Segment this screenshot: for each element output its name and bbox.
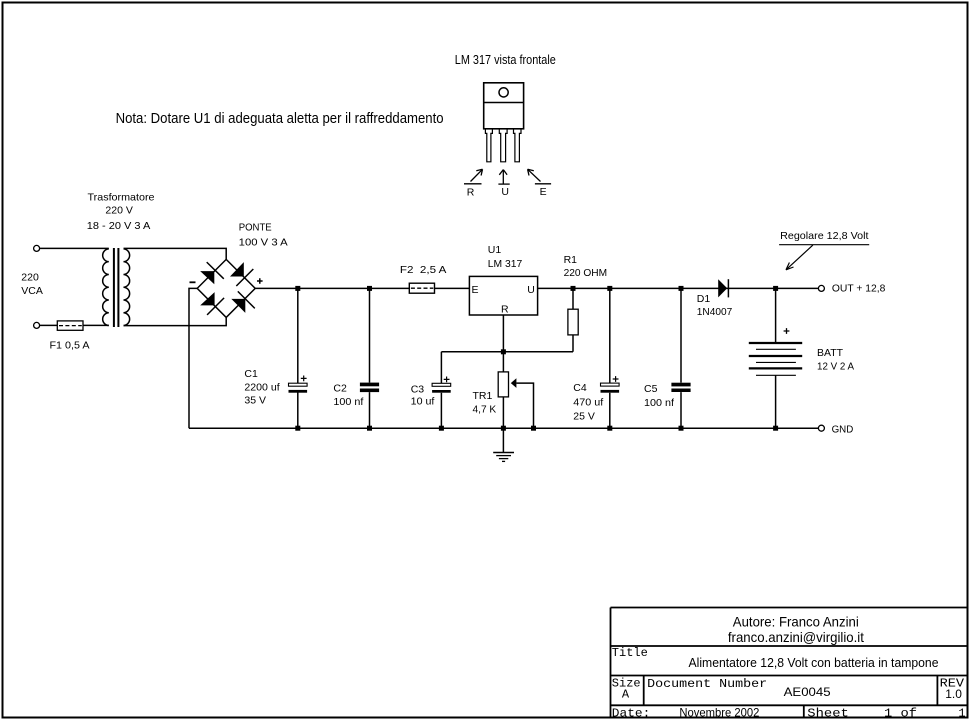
bridge rectifier PONTE diamond bbox=[197, 259, 255, 317]
battery BATT bbox=[749, 288, 802, 428]
wire R1 bottom / adjust node horizontal bbox=[441, 351, 573, 353]
bridge diode bottom-left bbox=[200, 292, 224, 315]
svg-text:U: U bbox=[501, 186, 509, 198]
junction rail C5 bbox=[679, 286, 684, 291]
svg-text:Alimentatore 12,8 Volt con bat: Alimentatore 12,8 Volt con batteria in t… bbox=[689, 656, 939, 670]
junction gnd wiper bbox=[531, 426, 536, 431]
svg-text:220 OHM: 220 OHM bbox=[564, 267, 608, 279]
wire secondary bottom to bridge bbox=[124, 318, 227, 326]
svg-text:C5: C5 bbox=[644, 383, 658, 395]
terminal GND bbox=[818, 425, 824, 431]
U1 LM317 package front view (TO-220) bbox=[484, 83, 524, 162]
wire fuse F1 to transformer primary bbox=[83, 324, 109, 326]
svg-text:R: R bbox=[467, 187, 475, 199]
op-amp/regulator U1 LM317 box bbox=[469, 276, 537, 315]
wire main +V rail (bridge to U1) bbox=[255, 287, 469, 289]
capacitor C1 plus sign bbox=[301, 376, 307, 382]
svg-text:R1: R1 bbox=[564, 254, 578, 266]
transformer T secondary winding bbox=[124, 249, 130, 326]
wire main +V rail (U1 to OUT) bbox=[538, 287, 819, 289]
svg-text:1N4007: 1N4007 bbox=[697, 306, 733, 318]
bridge diode top-right bbox=[230, 262, 253, 286]
svg-text:AE0045: AE0045 bbox=[784, 685, 831, 699]
svg-text:Novembre 2002: Novembre 2002 bbox=[679, 705, 759, 719]
svg-text:1 of: 1 of bbox=[884, 706, 917, 720]
battery plus sign bbox=[784, 328, 790, 334]
junction gnd battery bbox=[773, 426, 778, 431]
capacitor C3 leads bbox=[440, 352, 442, 428]
pin arrow E (TO-220 view) bbox=[528, 169, 552, 184]
capacitor C5 leads bbox=[680, 288, 682, 428]
transformer T core bbox=[114, 248, 119, 327]
svg-text:10 uf: 10 uf bbox=[411, 395, 435, 407]
svg-text:Document Number: Document Number bbox=[647, 677, 767, 691]
wire input top bbox=[40, 247, 109, 249]
svg-text:VCA: VCA bbox=[21, 285, 43, 297]
capacitor C2 leads bbox=[369, 288, 371, 428]
svg-text:OUT + 12,8: OUT + 12,8 bbox=[832, 283, 886, 295]
bridge minus sign bbox=[190, 281, 196, 283]
junction rail R1 bbox=[571, 286, 576, 291]
junction gnd C1 bbox=[295, 426, 300, 431]
transformer T primary winding bbox=[103, 249, 109, 326]
svg-text:LM 317: LM 317 bbox=[488, 258, 523, 270]
wire bridge minus down to ground rail bbox=[189, 288, 197, 428]
title block bbox=[611, 608, 969, 719]
capacitor C2 plates bbox=[360, 383, 379, 393]
svg-text:C4: C4 bbox=[573, 382, 587, 394]
terminal 220 VCA bottom bbox=[34, 322, 40, 328]
wire ground rail bbox=[189, 427, 818, 429]
svg-text:Trasformatore: Trasformatore bbox=[88, 191, 155, 203]
svg-text:Autore: Franco Anzini: Autore: Franco Anzini bbox=[733, 613, 859, 629]
diode D1 bbox=[718, 279, 728, 297]
svg-text:E: E bbox=[472, 284, 479, 296]
svg-text:C2: C2 bbox=[333, 383, 347, 395]
svg-text:1: 1 bbox=[958, 706, 965, 720]
pin arrow R (TO-220 view) bbox=[464, 169, 483, 184]
svg-text:220: 220 bbox=[21, 272, 39, 284]
svg-text:D1: D1 bbox=[697, 293, 711, 305]
svg-text:Title: Title bbox=[612, 646, 648, 660]
svg-text:C3: C3 bbox=[411, 383, 425, 395]
junction bridge+/C1 bbox=[295, 286, 300, 291]
capacitor C4 plus sign bbox=[613, 376, 619, 382]
bridge diode bottom-right bbox=[231, 291, 255, 313]
svg-text:Sheet: Sheet bbox=[807, 706, 849, 720]
svg-text:LM 317 vista frontale: LM 317 vista frontale bbox=[455, 52, 556, 67]
svg-text:F1 0,5 A: F1 0,5 A bbox=[50, 340, 90, 352]
svg-text:Date:: Date: bbox=[612, 706, 651, 720]
svg-text:GND: GND bbox=[832, 424, 854, 436]
junction R pin / adjust node bbox=[501, 349, 506, 354]
capacitor C1 leads bbox=[297, 288, 299, 428]
junction gnd C3 bbox=[439, 426, 444, 431]
svg-text:U: U bbox=[527, 284, 535, 296]
pin arrow U (TO-220 view) bbox=[498, 170, 509, 185]
svg-text:PONTE: PONTE bbox=[239, 221, 272, 233]
svg-text:470 uf: 470 uf bbox=[573, 397, 603, 409]
svg-text:25 V: 25 V bbox=[573, 411, 595, 423]
svg-text:U1: U1 bbox=[488, 244, 502, 256]
junction rail battery bbox=[773, 286, 778, 291]
svg-text:100 nf: 100 nf bbox=[644, 397, 674, 409]
junction gnd C4 bbox=[607, 426, 612, 431]
capacitor C3 plates bbox=[432, 383, 451, 392]
resistor R1 body bbox=[568, 309, 578, 335]
svg-text:2200 uf: 2200 uf bbox=[244, 382, 279, 394]
svg-text:BATT: BATT bbox=[817, 347, 844, 359]
svg-text:F2 2,5 A: F2 2,5 A bbox=[400, 264, 447, 276]
bridge plus sign bbox=[257, 278, 263, 284]
terminal OUT bbox=[818, 285, 824, 291]
svg-text:18 - 20 V 3 A: 18 - 20 V 3 A bbox=[87, 220, 151, 232]
fuse F2 bbox=[409, 283, 434, 293]
svg-text:C1: C1 bbox=[244, 368, 258, 380]
svg-text:4,7 K: 4,7 K bbox=[473, 403, 497, 415]
svg-text:100 nf: 100 nf bbox=[333, 396, 363, 408]
svg-text:franco.anzini@virgilio.it: franco.anzini@virgilio.it bbox=[728, 629, 864, 645]
svg-text:E: E bbox=[540, 186, 547, 198]
wire input bottom to fuse F1 bbox=[40, 324, 58, 326]
capacitor C1 plates bbox=[289, 383, 308, 392]
terminal 220 VCA top bbox=[34, 245, 40, 251]
bridge diode top-left bbox=[200, 262, 224, 284]
potentiometer TR1 bottom lead bbox=[502, 397, 504, 428]
junction gnd C5 bbox=[679, 426, 684, 431]
svg-text:R: R bbox=[501, 304, 509, 316]
svg-text:12 V 2 A: 12 V 2 A bbox=[817, 361, 854, 373]
junction rail C4 bbox=[607, 286, 612, 291]
annotation arrow Regolare 12,8 Volt bbox=[779, 245, 869, 270]
capacitor C4 leads bbox=[609, 288, 611, 428]
wire secondary top to bridge bbox=[124, 248, 227, 259]
junction gnd C2 bbox=[367, 426, 372, 431]
junction rail C2 bbox=[367, 286, 372, 291]
capacitor C5 plates bbox=[671, 383, 690, 392]
resistor R1 leads bbox=[572, 288, 574, 351]
svg-text:TR1: TR1 bbox=[473, 390, 493, 402]
svg-text:Nota: Dotare U1 di adeguata al: Nota: Dotare U1 di adeguata aletta per i… bbox=[116, 111, 444, 127]
svg-text:100 V 3 A: 100 V 3 A bbox=[239, 237, 288, 249]
ground symbol bbox=[493, 428, 514, 461]
junction gnd TR1 bbox=[501, 426, 506, 431]
wire U1 R pin down bbox=[502, 315, 504, 372]
potentiometer TR1 wiper arrow bbox=[511, 378, 534, 428]
svg-text:A: A bbox=[622, 688, 630, 702]
svg-text:220 V: 220 V bbox=[105, 204, 132, 216]
capacitor C3 plus sign bbox=[444, 377, 450, 383]
svg-text:Regolare 12,8 Volt: Regolare 12,8 Volt bbox=[780, 230, 868, 242]
fuse F1 bbox=[57, 321, 83, 330]
svg-text:1.0: 1.0 bbox=[945, 687, 962, 701]
svg-text:35 V: 35 V bbox=[244, 395, 266, 407]
capacitor C4 plates bbox=[601, 383, 620, 393]
potentiometer TR1 body bbox=[498, 372, 508, 397]
